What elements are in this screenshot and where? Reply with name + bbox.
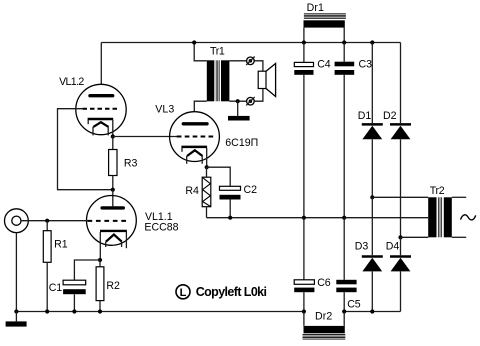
wire VL1.2 cathode lead <box>112 120 114 137</box>
wire R3 bottom lead <box>112 176 114 190</box>
wire input to VL1.1 grid <box>21 220 88 222</box>
resistor R3 <box>109 150 117 176</box>
transformer Tr1 <box>207 60 230 101</box>
wire Dr1 left lead <box>303 28 305 43</box>
diode D3 <box>362 257 383 272</box>
svg-text:6С19П: 6С19П <box>225 137 258 149</box>
diode D1 <box>362 124 383 139</box>
svg-text:C6: C6 <box>317 277 331 289</box>
wire C4 top lead <box>303 43 305 63</box>
wire C5 top lead <box>343 218 345 280</box>
wire Tr1 secondary top lead <box>229 60 246 62</box>
resistor R2 <box>96 267 104 301</box>
svg-text:C1: C1 <box>49 282 63 294</box>
svg-text:D2: D2 <box>383 110 397 122</box>
wire speaker bottom lead <box>254 89 263 102</box>
capacitor C3 <box>335 62 355 75</box>
wire D1 anode to Tr2 top junction <box>371 139 373 197</box>
capacitor C2 electrolytic <box>220 186 241 199</box>
svg-text:R4: R4 <box>185 185 199 197</box>
wire speaker top lead <box>254 61 263 71</box>
capacitor C1 electrolytic <box>63 280 86 294</box>
svg-text:VL1.2: VL1.2 <box>59 76 84 88</box>
wire top B+ rail <box>101 42 400 44</box>
node junction rail / jack shield <box>14 309 18 313</box>
wire Tr2 secondary bottom lead <box>401 236 429 238</box>
resistor R4 <box>202 177 211 207</box>
wire VL1.2 grid to VL1.1 anode feedback <box>58 109 113 190</box>
wire VL3 cathode lead <box>206 148 208 167</box>
wire R4 bottom lead <box>206 207 208 218</box>
wire R2 top lead <box>99 260 101 267</box>
node junction rail / Dr2 right / C5 <box>342 309 346 313</box>
svg-text:D3: D3 <box>355 240 369 252</box>
ground chassis bar (Tr1 secondary) <box>228 116 250 121</box>
wire D1 top lead <box>371 43 373 124</box>
capacitor C6 electrolytic <box>294 280 314 292</box>
wire Tr1 primary top lead <box>194 43 207 61</box>
resistor R1 <box>43 231 51 263</box>
svg-text:L: L <box>180 287 187 299</box>
svg-text:C4: C4 <box>317 59 331 71</box>
node junction rail / R1 <box>45 309 49 313</box>
transformer Tr2 <box>428 197 452 237</box>
wire ground stub <box>15 312 17 322</box>
node junction input / R1 <box>45 219 49 223</box>
svg-text:Dr2: Dr2 <box>315 311 332 323</box>
svg-text:R1: R1 <box>54 239 68 251</box>
node junction R3 / VL1.1 anode / feedback <box>111 188 115 192</box>
ground chassis bar (input) <box>6 321 27 326</box>
wire C4 bottom to center-tap <box>303 75 305 218</box>
svg-text:C5: C5 <box>347 299 361 311</box>
node junction rail / D1 column <box>370 40 374 44</box>
wire C5 bottom lead <box>343 292 345 311</box>
node junction rail / D3 <box>370 309 374 313</box>
wire C2 top lead <box>207 167 231 186</box>
wire C1 top lead <box>74 260 100 280</box>
diode D4 <box>390 257 411 272</box>
svg-text:D4: D4 <box>386 240 400 252</box>
node junction rail / C1 <box>72 309 76 313</box>
node junction rail / Dr1 left / C4 <box>302 40 306 44</box>
wire Dr1 right lead <box>343 28 345 43</box>
wire VL1.1 anode lead <box>112 190 114 207</box>
wire C3 top lead <box>343 43 345 62</box>
node junction VL1.2 cathode / VL3 grid / R3 top <box>111 134 115 138</box>
node junction D1/D3 column / Tr2 top <box>370 195 374 199</box>
node junction cathode / C1 / R2 <box>98 258 102 262</box>
node junction rail / Dr2 left / C6 <box>302 309 306 313</box>
terminal output jack bottom <box>246 97 255 106</box>
capacitor C4 electrolytic <box>294 62 313 74</box>
wire D3 cathode lead <box>371 197 373 255</box>
capacitor C5 <box>336 280 356 292</box>
node junction rail / R2 <box>98 309 102 313</box>
wire center-tap line <box>207 217 429 219</box>
node junction VL3 cathode <box>205 165 209 169</box>
diode D2 <box>390 124 411 139</box>
wire C6 top lead <box>303 218 305 280</box>
wire C6 bottom lead <box>303 292 305 311</box>
label AC mains tilde <box>461 215 476 220</box>
svg-text:Copyleft L0ki: Copyleft L0ki <box>196 285 267 299</box>
node junction Tr1 secondary bottom <box>236 99 240 103</box>
wire Dr2 left lead <box>303 312 305 326</box>
speaker LS1 <box>258 64 275 97</box>
wire VL3 grid lead <box>113 136 177 138</box>
choke Dr2 <box>303 326 346 339</box>
wire D2 top lead <box>400 43 402 124</box>
node junction C4 column / center-tap <box>302 216 306 220</box>
wire D4 anode lead <box>400 271 402 311</box>
wire C2 bottom lead <box>229 200 231 218</box>
wire Dr2 right lead <box>343 312 345 326</box>
node junction D2/D4 column / Tr2 bottom <box>398 235 402 239</box>
wire Tr2 secondary top lead <box>372 196 428 198</box>
wire Tr1 secondary bottom lead <box>229 100 246 102</box>
wire Tr1 primary bottom lead / VL3 anode lead <box>194 101 207 112</box>
node junction C2 bottom <box>228 216 232 220</box>
tube VL1.1 triode <box>87 196 137 249</box>
wire bottom rail right <box>344 311 400 313</box>
wire ground stub Tr1 secondary <box>237 101 239 116</box>
wire D3 anode lead <box>371 271 373 311</box>
svg-text:ECC88: ECC88 <box>144 221 178 233</box>
node junction C3 column / center-tap <box>342 216 346 220</box>
wire R4 top lead <box>206 167 208 177</box>
wire R2 bottom lead <box>99 301 101 312</box>
terminal output jack top <box>246 57 255 66</box>
svg-text:R2: R2 <box>106 280 120 292</box>
node junction top rail at Tr1 <box>192 40 196 44</box>
choke Dr1 <box>304 14 346 28</box>
wire Tr2 primary top lead <box>452 196 466 198</box>
svg-text:D1: D1 <box>358 110 372 122</box>
wire R1 bottom lead <box>46 262 48 311</box>
wire R3 top lead <box>112 137 114 150</box>
wire VL1.1 cathode lead <box>99 232 101 260</box>
wire R1 top lead <box>46 221 48 231</box>
connector input jack J1 <box>5 209 29 233</box>
tube VL3 triode <box>170 112 220 164</box>
svg-text:C3: C3 <box>359 59 373 71</box>
wire D2 anode to Tr2 bottom junction <box>400 139 402 237</box>
svg-text:VL3: VL3 <box>155 104 174 116</box>
svg-text:R3: R3 <box>124 157 138 169</box>
tube VL1.2 triode <box>76 84 126 135</box>
svg-text:C2: C2 <box>244 184 258 196</box>
logo copyleft circle L <box>176 285 190 299</box>
wire input jack shield <box>15 233 17 312</box>
node junction rail / Dr1 right / C3 <box>342 40 346 44</box>
svg-text:Tr1: Tr1 <box>210 46 225 58</box>
wire C1 bottom lead <box>73 294 75 311</box>
svg-text:Tr2: Tr2 <box>430 185 445 197</box>
wire bottom ground rail left <box>16 311 304 313</box>
wire Tr2 primary bottom lead <box>452 236 466 238</box>
wire VL1.2 anode lead <box>100 43 102 85</box>
wire D4 cathode lead <box>400 237 402 255</box>
svg-text:Dr1: Dr1 <box>307 2 324 14</box>
wire C3 bottom to center-tap <box>343 75 345 218</box>
